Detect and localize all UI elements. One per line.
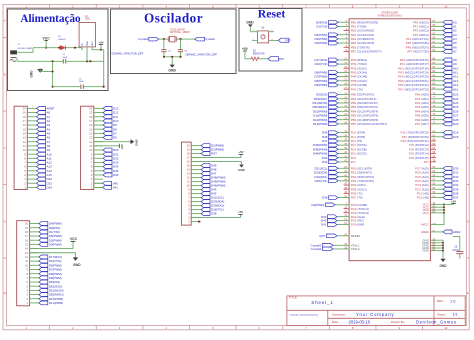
svg-text:D6: D6: [113, 136, 117, 140]
svg-text:RST: RST: [211, 152, 217, 156]
svg-text:PG0 (WR): PG0 (WR): [351, 223, 365, 227]
svg-text:10uF: 10uF: [62, 57, 68, 59]
svg-text:REV:: REV:: [437, 299, 444, 303]
svg-text:D18(TX1): D18(TX1): [315, 179, 328, 183]
svg-text:PA7 (AD7): PA7 (AD7): [415, 122, 429, 126]
svg-text:D29: D29: [453, 122, 459, 126]
svg-text:D16(TX2): D16(TX2): [315, 62, 328, 66]
svg-text:GND: GND: [168, 69, 176, 73]
svg-text:C: C: [4, 146, 6, 150]
svg-text:2: 2: [86, 45, 87, 47]
svg-text:Alimentação: Alimentação: [20, 13, 81, 25]
svg-text:D42: D42: [322, 160, 328, 164]
svg-text:RST: RST: [320, 234, 326, 238]
svg-text:A: A: [467, 19, 469, 23]
svg-text:Crystal2: Crystal2: [205, 37, 216, 41]
svg-text:GND: GND: [73, 263, 81, 267]
svg-text:1: 1: [81, 45, 82, 47]
svg-text:1.0: 1.0: [450, 298, 456, 303]
svg-text:D9(PWM): D9(PWM): [315, 83, 328, 87]
svg-text:D1(TX0): D1(TX0): [316, 25, 327, 29]
svg-text:DC005-2.5MM: DC005-2.5MM: [17, 48, 31, 50]
svg-text:D38: D38: [322, 196, 328, 200]
svg-text:A15: A15: [453, 87, 459, 91]
svg-text:TITLE:: TITLE:: [289, 296, 298, 300]
svg-text:D3(PWM): D3(PWM): [49, 243, 62, 247]
svg-text:AVCC: AVCC: [421, 223, 430, 227]
svg-text:VCC: VCC: [423, 211, 430, 215]
svg-text:+5V: +5V: [238, 210, 243, 214]
svg-text:D36: D36: [113, 173, 119, 177]
svg-text:GND: GND: [439, 264, 447, 268]
svg-text:Sheet:: Sheet:: [437, 312, 446, 316]
svg-text:PD7 (T0): PD7 (T0): [351, 196, 363, 200]
svg-text:10uF: 10uF: [79, 81, 85, 83]
svg-text:D11(PWM): D11(PWM): [49, 301, 63, 305]
svg-text:+5V: +5V: [120, 144, 124, 149]
svg-text:+5V: +5V: [451, 200, 456, 204]
svg-text:D4(PWM): D4(PWM): [312, 203, 325, 207]
svg-text:D: D: [467, 220, 469, 224]
svg-text:RESET: RESET: [351, 234, 361, 238]
svg-text:GND: GND: [238, 168, 244, 172]
svg-text:CRYSTAL, 16MHz: CRYSTAL, 16MHz: [170, 31, 191, 34]
svg-text:7805: 7805: [85, 19, 91, 21]
svg-text:D24: D24: [47, 186, 53, 190]
svg-text:Crystal1: Crystal1: [138, 37, 149, 41]
svg-text:ATMEGA2560-16AU: ATMEGA2560-16AU: [378, 13, 402, 17]
svg-text:GND: GND: [29, 70, 33, 78]
svg-text:D15: D15: [453, 135, 459, 139]
svg-text:PK7 (ADC15/PCINT23): PK7 (ADC15/PCINT23): [398, 87, 429, 91]
svg-text:PF7 (ADC7/TDI): PF7 (ADC7/TDI): [407, 50, 429, 54]
svg-text:Date:: Date:: [332, 320, 340, 324]
svg-text:PC0 (A8): PC0 (A8): [417, 196, 429, 200]
svg-text:+5V: +5V: [238, 150, 243, 154]
svg-text:AREF: AREF: [453, 230, 461, 234]
svg-text:Sheet_1: Sheet_1: [311, 300, 333, 305]
svg-text:Oscilador: Oscilador: [144, 10, 203, 25]
svg-text:PL7: PL7: [351, 160, 357, 164]
svg-text:Crystal2: Crystal2: [311, 247, 322, 251]
svg-text:1N4001: 1N4001: [58, 39, 66, 41]
svg-text:CERAMIC_CAPACITOR_22PF: CERAMIC_CAPACITOR_22PF: [112, 53, 144, 56]
svg-text:B: B: [467, 73, 469, 77]
svg-text:D: D: [4, 220, 6, 224]
svg-text:RST: RST: [286, 38, 292, 42]
svg-text:+5V: +5V: [98, 40, 103, 44]
svg-text:Company:: Company:: [332, 313, 346, 317]
svg-text:Drawn By:: Drawn By:: [391, 320, 405, 324]
svg-text:Your Company: Your Company: [356, 312, 394, 317]
svg-text:RST: RST: [279, 57, 285, 61]
svg-text:GND: GND: [422, 249, 429, 253]
svg-text:C: C: [467, 146, 469, 150]
svg-text:E: E: [4, 291, 6, 295]
svg-text:GND: GND: [246, 21, 254, 25]
svg-text:2019-05-16: 2019-05-16: [349, 319, 371, 324]
svg-text:E: E: [467, 291, 469, 295]
svg-text:D38: D38: [211, 212, 217, 216]
svg-text:Denilson_Gomes: Denilson_Gomes: [416, 319, 457, 324]
svg-text:D41: D41: [321, 223, 327, 227]
svg-text:CERAMIC_CAPACITOR_22PF: CERAMIC_CAPACITOR_22PF: [185, 54, 217, 57]
svg-text:3: 3: [91, 45, 92, 47]
svg-text:PJ7: PJ7: [424, 160, 429, 164]
svg-text:VCC: VCC: [70, 237, 78, 241]
svg-text:A: A: [4, 19, 6, 23]
svg-text:VCC: VCC: [43, 36, 51, 40]
svg-text:Reset: Reset: [258, 7, 286, 21]
svg-text:XTAL2: XTAL2: [351, 247, 360, 251]
svg-text:~easyeda.com/denilsongomes: ~easyeda.com/denilsongomes: [289, 314, 320, 316]
svg-text:RESISTOR: RESISTOR: [253, 54, 265, 56]
svg-text:A7: A7: [453, 50, 457, 54]
svg-text:1/1: 1/1: [453, 313, 458, 317]
svg-text:D41: D41: [113, 186, 119, 190]
svg-text:B: B: [4, 73, 6, 77]
svg-text:PB7 (OC0A/OC1C/PCINT7): PB7 (OC0A/OC1C/PCINT7): [351, 122, 388, 126]
svg-text:D3(PWM): D3(PWM): [315, 41, 328, 45]
svg-text:PE7 (CLKO/ICP3/INT7): PE7 (CLKO/ICP3/INT7): [351, 50, 382, 54]
svg-text:AREF: AREF: [421, 230, 429, 234]
svg-text:PH7 (T4): PH7 (T4): [351, 87, 363, 91]
svg-text:D13(PWM): D13(PWM): [313, 122, 328, 126]
svg-text:GND: GND: [135, 139, 139, 145]
